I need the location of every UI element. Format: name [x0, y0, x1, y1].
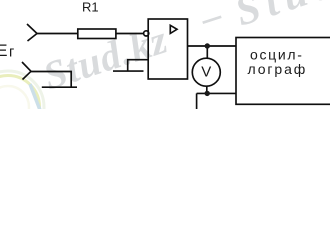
inversion circle at amp input: [144, 31, 149, 36]
wire down to edge: [196, 93, 198, 110]
voltmeter circle: [192, 58, 220, 86]
wire junction to voltmeter: [206, 46, 208, 58]
svg-text:V: V: [201, 64, 211, 81]
amp triangle symbol: [170, 25, 177, 33]
resistor R1: [78, 29, 116, 39]
terminal arrow lower: [22, 62, 31, 80]
amp lower input wire with jog: [113, 60, 148, 71]
op-amp U1 rectangle: [148, 19, 187, 79]
svg-text:Ег: Ег: [0, 42, 14, 61]
wire amp output: [188, 45, 237, 47]
logo arc outer (pale green-white): [0, 71, 44, 143]
junction dot top: [205, 43, 210, 48]
terminal arrow upper: [27, 24, 37, 41]
svg-text:лограф: лограф: [248, 61, 308, 77]
oscilloscope box: [236, 38, 330, 105]
wire bottom to oscilloscope: [197, 92, 236, 94]
logo arc inner (pale yellow): [0, 76, 40, 139]
svg-text:Stud.kz: Stud.kz: [230, 0, 330, 36]
wire input to R1: [37, 33, 78, 35]
svg-text:R1: R1: [82, 0, 99, 15]
svg-text:–: –: [195, 0, 227, 40]
logo stripe (pale blue): [30, 84, 40, 110]
wire voltmeter to bottom junction: [206, 86, 208, 93]
wire lower terminal to ground: [31, 72, 71, 88]
ground bar: [42, 86, 77, 88]
wire R1 to amp input: [116, 33, 144, 35]
junction dot bottom: [205, 91, 210, 96]
